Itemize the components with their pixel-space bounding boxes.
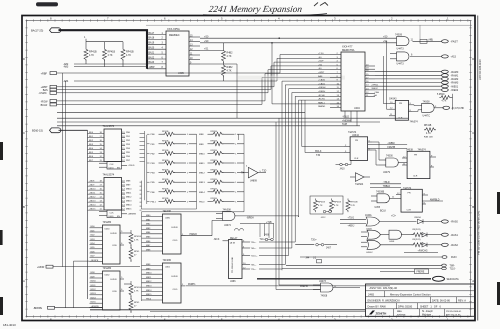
- label +FWCHG: [404, 251, 438, 253]
- svg-text:MEMDEC: MEMDEC: [169, 34, 180, 37]
- gate U4473C 74S08: [313, 281, 360, 297]
- wire +T1B: [240, 222, 274, 224]
- svg-text:4.7K: 4.7K: [89, 54, 94, 57]
- wire -BREH: [235, 216, 299, 220]
- flip-flop U4543 74AS74: [389, 98, 418, 124]
- wire BA bus thick: [59, 30, 148, 69]
- svg-text:74AS74: 74AS74: [348, 131, 357, 134]
- svg-text:MB15: MB15: [126, 209, 132, 211]
- svg-text:A: A: [472, 279, 474, 283]
- wire matrix to parity2 bus: [142, 134, 245, 301]
- svg-text:+S0P: +S0P: [318, 61, 324, 63]
- wire +S0B: [200, 40, 397, 43]
- wire -RAM2 to terminal: [375, 77, 459, 81]
- wire +WBNI: [368, 143, 407, 145]
- svg-text:BA21: BA21: [149, 51, 155, 54]
- wire +MOR: [37, 265, 140, 269]
- svg-text:MB13: MB13: [126, 201, 132, 203]
- resistor RP41B right: [346, 199, 358, 213]
- svg-text:MB12: MB12: [126, 197, 132, 199]
- svg-text:4.7K: 4.7K: [351, 205, 356, 207]
- svg-text:EN: EN: [117, 216, 120, 218]
- svg-text:T10+-: T10+-: [260, 239, 266, 241]
- svg-text:PR: PR: [408, 192, 411, 194]
- wire +MEMR long: [57, 111, 305, 113]
- svg-text:C: C: [472, 131, 474, 135]
- wire +S0A: [200, 35, 397, 38]
- node -RAS0 terminal: [442, 220, 459, 224]
- svg-text:St. Joseph: St. Joseph: [422, 310, 434, 313]
- wire SER.DATA thick: [257, 276, 459, 281]
- wire bundle center vertical: [282, 81, 344, 270]
- svg-text:U447C: U447C: [423, 115, 431, 118]
- svg-text:Michigan: Michigan: [422, 314, 432, 316]
- gate U450B OR: [361, 229, 389, 240]
- MEMCTRL left pins: [318, 53, 341, 108]
- IC U480 74F280 parity: [142, 210, 186, 254]
- svg-text:data: data: [397, 310, 402, 313]
- svg-text:MB10: MB10: [126, 189, 132, 191]
- wire BDBPE riser: [74, 261, 90, 308]
- gate U447S 74S00: [379, 156, 407, 174]
- svg-text:MB9: MB9: [199, 144, 204, 146]
- svg-text:B: B: [23, 205, 25, 209]
- svg-text:CLK: CLK: [110, 212, 115, 214]
- svg-text:AMRBLD: AMRBLD: [430, 198, 440, 201]
- wire +S1: [200, 48, 224, 51]
- svg-text:U461: U461: [165, 267, 171, 269]
- svg-text:4.7K: 4.7K: [318, 205, 323, 207]
- svg-text:-YBLD: -YBLD: [342, 116, 349, 119]
- svg-text:CR(P41): CR(P41): [412, 229, 421, 231]
- svg-text:FREHB: FREHB: [387, 147, 395, 149]
- svg-text:DATE: 06-02-86: DATE: 06-02-86: [432, 299, 450, 302]
- flip-flop U4344 74AS74: [344, 131, 372, 160]
- jumper J408: [260, 224, 274, 241]
- svg-text:PBL1: PBL1: [151, 201, 157, 203]
- node BD(0-15) bus entry: [32, 128, 61, 133]
- svg-text:BD(0-15): BD(0-15): [32, 129, 43, 133]
- svg-text:RP41B: RP41B: [108, 50, 116, 53]
- gate U450C OR: [361, 240, 414, 254]
- svg-text:+BD9: +BD9: [89, 185, 95, 187]
- IC U474 74ALS573: [88, 125, 135, 170]
- svg-text:4.7K: 4.7K: [227, 55, 232, 58]
- svg-text:XXX-XP5A: XXX-XP5A: [167, 27, 180, 31]
- svg-text:BA18: BA18: [149, 37, 155, 40]
- vertical feeders FFs: [384, 41, 390, 109]
- wire -RAM3 to terminal: [375, 81, 459, 85]
- svg-text:-RAS0: -RAS0: [451, 221, 459, 224]
- diode CR456: [414, 217, 442, 224]
- svg-text:CR(P41): CR(P41): [412, 239, 421, 241]
- node -IO,CH,CHK terminal: [443, 106, 465, 110]
- svg-text:CAS: CAS: [375, 91, 380, 94]
- svg-text:R4B 14B: R4B 14B: [424, 137, 433, 139]
- IC U460 74S280 parity: [90, 221, 125, 264]
- svg-text:RP41B: RP41B: [424, 125, 432, 127]
- resistor R4B2: [222, 43, 234, 63]
- wire RUN: [300, 256, 457, 259]
- svg-text:EN: EN: [117, 167, 120, 169]
- node -CSMC terminal: [39, 70, 331, 96]
- jumper J400: [260, 239, 266, 241]
- svg-text:BCLK: BCLK: [380, 210, 386, 212]
- svg-text:74S280: 74S280: [103, 221, 112, 224]
- svg-text:74F280: 74F280: [163, 259, 172, 262]
- svg-text:BD10: BD10: [91, 281, 97, 283]
- wire PABLD: [181, 220, 223, 236]
- svg-text:EVEN: EVEN: [172, 276, 178, 278]
- wire T110-: [282, 267, 456, 270]
- wire FF to gate: [412, 105, 422, 112]
- svg-text:RP41B: RP41B: [318, 202, 325, 204]
- flip-flop U4537 74AS74: [396, 187, 428, 212]
- svg-text:PR: PR: [414, 154, 417, 156]
- resistor RP41B pullup FF: [424, 125, 436, 138]
- svg-text:A: A: [23, 279, 25, 283]
- svg-text:MB14: MB14: [126, 205, 132, 207]
- scan artifact marks: [36, 2, 58, 6]
- svg-text:-A15: -A15: [451, 55, 457, 59]
- svg-text:U474: U474: [109, 167, 115, 169]
- svg-text:-RAM1: -RAM1: [451, 74, 459, 77]
- wire latch1 to matrix: [140, 131, 150, 204]
- svg-text:+S0: +S0: [383, 35, 388, 38]
- svg-text:T20+-: T20+-: [251, 242, 257, 244]
- svg-text:+CI>: +CI>: [391, 214, 397, 217]
- svg-text:BA(17-23): BA(17-23): [31, 28, 43, 32]
- svg-text:-IO,CH,CHK: -IO,CH,CHK: [451, 107, 465, 110]
- svg-text:(4B): (4B): [429, 39, 434, 42]
- svg-text:U4473: U4473: [319, 281, 326, 283]
- svg-text:D: D: [472, 57, 474, 61]
- IC U469 74ALS574: [88, 173, 137, 218]
- svg-text:ZENITH: ZENITH: [376, 311, 387, 315]
- svg-text:PABLD: PABLD: [190, 233, 198, 236]
- svg-text:BA22: BA22: [149, 56, 155, 59]
- svg-text:T75+-: T75+-: [251, 269, 257, 271]
- label FRERE box: [380, 269, 429, 274]
- svg-text:JOB NO 186-4013: JOB NO 186-4013: [479, 59, 482, 80]
- node -ROW terminal: [41, 74, 330, 104]
- svg-text:U462: U462: [105, 274, 111, 276]
- svg-text:ODD: ODD: [173, 240, 178, 242]
- wire -A83: [63, 66, 147, 69]
- resistor matrix RP41B 16 cells: [151, 131, 245, 203]
- jumper J407: [295, 240, 337, 250]
- svg-text:MB15: MB15: [146, 294, 152, 296]
- svg-text:2465: 2465: [368, 292, 374, 296]
- svg-text:U4074: U4074: [224, 225, 231, 227]
- svg-text:T45+-: T45+-: [251, 248, 257, 250]
- inverter U4899: [241, 166, 267, 183]
- svg-text:RP41: RP41: [134, 302, 140, 304]
- sheet title handwritten: [208, 5, 303, 15]
- svg-text:U469: U469: [109, 216, 115, 218]
- svg-text:74AS74: 74AS74: [410, 120, 419, 123]
- svg-text:MB14: MB14: [199, 192, 205, 194]
- svg-text:4.7K: 4.7K: [334, 205, 339, 207]
- svg-text:4.7K: 4.7K: [134, 240, 139, 242]
- resistor pack RP41B pull-up 2: [103, 42, 116, 67]
- diode network CR(P41) A: [412, 229, 442, 237]
- wire to gate U4473C: [276, 118, 321, 289]
- svg-text:+BD13: +BD13: [89, 201, 96, 203]
- svg-text:J41C: J41C: [321, 217, 327, 219]
- svg-text:+T.50: +T.50: [318, 53, 324, 55]
- svg-text:CLR: CLR: [398, 118, 403, 120]
- flip-flop U4538 74AS74: [402, 149, 436, 179]
- resistor R4B3: [222, 62, 234, 81]
- svg-text:BD14: BD14: [91, 297, 97, 299]
- MEMDEC right pins: [189, 35, 200, 64]
- svg-text:systems: systems: [397, 313, 406, 316]
- svg-text:4.7K: 4.7K: [442, 101, 447, 103]
- svg-text:MEMCTRL: MEMCTRL: [342, 48, 355, 52]
- node +RBF terminal: [41, 55, 330, 76]
- svg-text:MB14: MB14: [146, 290, 152, 292]
- svg-text:RUN: RUN: [451, 256, 457, 259]
- svg-text:J407: J407: [326, 247, 332, 249]
- node BAS terminal: [43, 66, 330, 92]
- svg-text:ASSY NO. 181-5(9)-40: ASSY NO. 181-5(9)-40: [370, 286, 398, 290]
- svg-text:74S08: 74S08: [423, 100, 431, 103]
- MEMDEC left pins: [147, 32, 166, 69]
- wire T6R-: [286, 264, 455, 267]
- wire PARH1: [186, 283, 390, 286]
- svg-text:PARM1: PARM1: [318, 105, 326, 108]
- svg-text:1A 1B: 1A 1B: [230, 241, 236, 244]
- svg-text:MB10: MB10: [146, 273, 152, 275]
- svg-text:U466: U466: [230, 281, 236, 283]
- svg-text:U405: U405: [178, 72, 184, 75]
- wire AMRBLD: [422, 198, 443, 201]
- resistor RP41 47 parity 2: [129, 298, 140, 313]
- svg-text:+BD11: +BD11: [89, 193, 96, 195]
- svg-text:74S08: 74S08: [321, 295, 328, 297]
- svg-text:T20+-: T20+-: [311, 240, 317, 242]
- svg-text:BD11: BD11: [91, 285, 97, 287]
- svg-text:Drawn BY: RAW: Drawn BY: RAW: [368, 305, 387, 308]
- node -A15 terminal: [442, 55, 457, 59]
- svg-text:BD15: BD15: [91, 302, 97, 304]
- svg-text:CLR: CLR: [413, 176, 418, 178]
- svg-text:ART#85-06-86: ART#85-06-86: [446, 313, 461, 316]
- svg-text:74ALS573: 74ALS573: [103, 125, 115, 128]
- svg-text:PR: PR: [355, 140, 358, 142]
- IC U461 74F280 parity: [142, 259, 186, 303]
- svg-text:RP41: RP41: [134, 251, 140, 253]
- svg-text:U458: U458: [389, 241, 395, 243]
- svg-text:4.7K: 4.7K: [426, 133, 431, 135]
- svg-text:DPW: 55030: DPW: 55030: [398, 305, 413, 308]
- svg-text:-BDBPE: -BDBPE: [91, 260, 99, 262]
- svg-text:-RAM0: -RAM0: [451, 71, 459, 74]
- svg-text:+BD12: +BD12: [89, 197, 96, 199]
- IC U466 delay line: [229, 237, 243, 283]
- svg-text:+S0: +S0: [204, 40, 209, 43]
- resistor RP41B parity pullup 2: [124, 281, 141, 299]
- svg-text:+4EKJ: +4EKJ: [348, 226, 355, 228]
- svg-text:ODD: ODD: [173, 289, 178, 291]
- svg-text:PARH1: PARH1: [188, 283, 196, 286]
- svg-text:T30: T30: [316, 154, 321, 157]
- wire +4EKJ: [340, 224, 366, 228]
- svg-text:EVEN: EVEN: [111, 279, 117, 281]
- svg-text:-YBLD: -YBLD: [383, 182, 390, 184]
- gate U455 74S00B: [371, 192, 401, 213]
- resistor R519: [437, 94, 453, 110]
- svg-text:+S1: +S1: [383, 40, 388, 43]
- IC U462 74S280 parity: [90, 267, 125, 310]
- svg-text:-RAS1: -RAS1: [451, 234, 459, 237]
- svg-text:+YBLD: +YBLD: [128, 165, 135, 167]
- svg-text:+MEMW: +MEMW: [128, 214, 137, 216]
- svg-text:181-4013: 181-4013: [3, 323, 16, 327]
- svg-text:-WE02: -WE02: [371, 88, 378, 90]
- svg-text:XXX-477: XXX-477: [342, 44, 353, 48]
- svg-text:U460: U460: [105, 228, 111, 230]
- title block: [366, 284, 475, 316]
- svg-text:MB11: MB11: [199, 163, 205, 165]
- svg-text:-FAST: -FAST: [451, 39, 459, 43]
- svg-text:Memory Expansion Control Secti: Memory Expansion Control Section: [390, 292, 431, 296]
- wire latch2 to matrix col2: [140, 134, 197, 210]
- svg-text:+RBF: +RBF: [41, 72, 48, 75]
- svg-text:2241 Memory Expansion: 2241 Memory Expansion: [208, 5, 303, 15]
- svg-text:4.7K: 4.7K: [227, 70, 232, 73]
- svg-text:-BD8PE: -BD8PE: [33, 307, 42, 310]
- gate U447C 74S08: [422, 100, 444, 117]
- svg-text:SHEET 1 OF 6: SHEET 1 OF 6: [420, 305, 441, 308]
- svg-text:4.7K: 4.7K: [108, 54, 113, 57]
- scan smear band: [238, 76, 345, 80]
- svg-text:MB13: MB13: [146, 286, 152, 288]
- svg-text:-RAM3: -RAM3: [451, 82, 459, 85]
- svg-text:RP41B: RP41B: [134, 236, 141, 238]
- svg-text:EVEN: EVEN: [172, 227, 178, 229]
- wire -MCK: [214, 239, 229, 241]
- resistor RP41 47 parity 1: [129, 247, 140, 262]
- wire -RAM1 to terminal: [375, 74, 459, 78]
- svg-text:RP41B: RP41B: [134, 287, 141, 289]
- svg-text:-MCK: -MCK: [214, 239, 220, 241]
- svg-text:SER.DATA: SER.DATA: [447, 278, 459, 281]
- wire -WE02 to terminal: [375, 88, 459, 92]
- svg-text:T55+-: T55+-: [251, 265, 257, 267]
- svg-text:+MEMW: +MEMW: [342, 119, 352, 122]
- svg-text:+MOR: +MOR: [37, 266, 44, 269]
- wire -WE01 to terminal: [375, 85, 459, 89]
- svg-text:BA23: BA23: [149, 61, 155, 64]
- svg-text:-A84: -A84: [63, 80, 69, 83]
- wire TAPI: [57, 111, 360, 126]
- svg-text:C: C: [23, 131, 25, 135]
- delay line taps: [242, 240, 258, 271]
- svg-text:B: B: [472, 205, 474, 209]
- svg-text:4.7K: 4.7K: [134, 291, 139, 293]
- svg-text:FRERE: FRERE: [417, 272, 425, 274]
- svg-text:BA20: BA20: [149, 47, 155, 50]
- svg-text:74S00B: 74S00B: [376, 192, 385, 194]
- diode network CR(P41) B: [412, 239, 442, 247]
- svg-text:MB8: MB8: [199, 134, 204, 136]
- node BCLR terminal: [41, 77, 330, 107]
- svg-text:-WE01: -WE01: [451, 85, 459, 88]
- wire FREHB: [368, 147, 407, 149]
- jumper J410: [336, 160, 352, 170]
- svg-text:MB13: MB13: [199, 182, 205, 184]
- wire +MEMW: [57, 111, 380, 122]
- svg-text:-WE02: -WE02: [451, 89, 459, 92]
- wire +S0 drop junction: [272, 43, 341, 104]
- node -RAS1 terminal: [442, 233, 459, 237]
- svg-text:+WBNI: +WBNI: [387, 143, 395, 145]
- svg-text:+BD10: +BD10: [89, 189, 96, 191]
- svg-text:U455: U455: [375, 207, 381, 209]
- node -RAS2 terminal: [442, 243, 459, 247]
- IC U405 MEMDEC: [166, 27, 189, 76]
- resistor pack RP41B boxed: [310, 196, 343, 219]
- svg-text:5 R519: 5 R519: [437, 94, 445, 96]
- svg-text:BD12: BD12: [91, 289, 97, 291]
- svg-text:CR456: CR456: [414, 217, 422, 219]
- svg-text:U4473: U4473: [397, 63, 405, 66]
- svg-text:U450C: U450C: [366, 252, 373, 254]
- svg-text:CLR: CLR: [407, 209, 412, 211]
- svg-text:74S00: 74S00: [386, 156, 393, 158]
- sheet inner border: [27, 21, 471, 317]
- gate U4473A 74S09: [395, 33, 442, 50]
- svg-text:D: D: [23, 57, 25, 61]
- svg-text:MB12: MB12: [146, 281, 152, 283]
- svg-text:+T1KJ: +T1KJ: [348, 218, 355, 220]
- svg-text:+WRT: +WRT: [318, 72, 325, 74]
- wire -BD8PE: [33, 306, 103, 310]
- wire -A82: [63, 63, 147, 66]
- svg-text:CLR: CLR: [354, 158, 359, 160]
- svg-text:RP41B: RP41B: [334, 202, 341, 204]
- svg-text:MB11: MB11: [146, 277, 152, 279]
- node +WRT terminal: [41, 62, 330, 89]
- svg-text:RP41B: RP41B: [89, 50, 97, 53]
- svg-text:+BD8: +BD8: [89, 181, 95, 183]
- wire top rail: [146, 24, 472, 26]
- svg-text:-CSMC: -CSMC: [39, 92, 47, 95]
- svg-text:74AS04: 74AS04: [355, 183, 364, 186]
- wire -S1: [200, 64, 237, 118]
- svg-text:BCLR: BCLR: [41, 104, 48, 107]
- svg-text:FREHB: FREHB: [300, 286, 308, 288]
- gate U4074 74AS08: [216, 209, 235, 228]
- svg-text:+BD15: +BD15: [89, 209, 96, 211]
- svg-text:U480: U480: [165, 218, 171, 220]
- svg-text:BA17: BA17: [149, 32, 155, 35]
- svg-text:PBL0: PBL0: [199, 201, 205, 203]
- svg-text:MB12: MB12: [199, 173, 205, 175]
- wire bottom long: [90, 309, 366, 311]
- svg-text:BA19: BA19: [149, 42, 155, 45]
- MEMCTRL right pins: [365, 65, 380, 98]
- svg-text:MB10: MB10: [199, 153, 205, 155]
- svg-text:ODD: ODD: [112, 245, 117, 247]
- node -FAST terminal: [442, 39, 459, 43]
- resistor RP41B parity pullup 1: [124, 230, 141, 248]
- svg-text:74S280: 74S280: [103, 267, 112, 270]
- wire -RAM0 to terminal: [375, 70, 459, 74]
- svg-text:PARL1: PARL1: [318, 101, 326, 104]
